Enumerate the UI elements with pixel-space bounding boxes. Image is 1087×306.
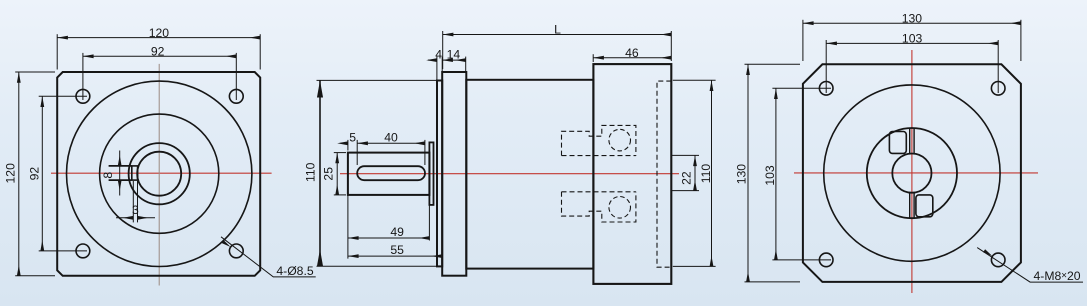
svg-text:L: L <box>554 23 561 37</box>
right view flange square 130x130 chamfered <box>803 64 1021 282</box>
svg-text:25: 25 <box>322 167 336 181</box>
right view body circle <box>824 85 1000 261</box>
dim 22: extension lines <box>672 155 699 190</box>
dim 92 left: extension lines <box>39 96 87 251</box>
right view bottom clamp pocket <box>916 195 933 217</box>
dim 110 left: dimension line <box>319 80 321 266</box>
middle view spigot collar <box>429 142 433 205</box>
dim 120 top: dimension line <box>57 37 260 39</box>
dim 5: extension line <box>347 140 349 151</box>
left view body circle Ø110 <box>67 81 252 266</box>
right view bottom clamp slit <box>910 193 914 218</box>
dim 5: arrow line <box>341 142 348 144</box>
dim 40: extension lines <box>357 140 425 165</box>
hidden hole circle lower <box>609 197 631 219</box>
svg-text:49: 49 <box>390 225 404 239</box>
svg-text:92: 92 <box>28 167 42 181</box>
dim 25: dimension line <box>336 153 338 195</box>
svg-text:46: 46 <box>625 46 639 60</box>
dim 55: dimension line <box>348 255 442 257</box>
middle view shaft <box>348 153 430 195</box>
hidden bore top line <box>562 155 636 157</box>
dim 8 key: dim line through <box>119 166 121 180</box>
right view top clamp slit <box>910 129 914 154</box>
dim 46: dimension line <box>593 57 671 59</box>
dim 103 top: extension lines <box>826 40 998 93</box>
right view bolt hole top-left <box>819 82 833 96</box>
dim 110 right: extension lines <box>673 80 716 266</box>
dim 4-14: extension lines <box>437 57 466 81</box>
dim 8 key: extension lines <box>109 166 132 180</box>
svg-text:55: 55 <box>390 243 404 257</box>
dim 103 left: dimension line <box>775 88 777 260</box>
svg-text:130: 130 <box>902 11 923 25</box>
left view bolt hole bottom-right <box>229 244 243 258</box>
dim 3 key: extension lines <box>133 181 137 222</box>
dim 130 top: extension lines <box>803 20 1021 61</box>
middle view boss Ø110 <box>437 81 442 267</box>
middle view flange plate <box>442 72 466 276</box>
left view bolt hole bottom-left <box>76 244 90 258</box>
hidden bore bottom line <box>562 191 636 193</box>
middle view body <box>466 80 593 269</box>
leader 4-Ø8.5 <box>221 237 316 277</box>
dim 14: dimension line <box>442 59 466 61</box>
dim 120 top: extension lines <box>57 34 260 69</box>
left view flange square outline 120x120 chamfered <box>57 72 260 276</box>
svg-text:40: 40 <box>384 131 398 145</box>
svg-text:8: 8 <box>101 172 115 179</box>
dim 120 left: dimension line <box>18 72 20 276</box>
left view bolt hole top-right <box>229 89 243 103</box>
left view horizontal centerline (red) <box>51 172 272 174</box>
leader 4-Ø8.5 arrowhead <box>221 240 230 247</box>
dim 92 top: extension lines <box>83 53 236 100</box>
dim 130 left: dimension line <box>747 64 749 282</box>
right view top clamp pocket <box>889 132 906 154</box>
hidden cavity lower outline <box>562 192 636 222</box>
dim L: extension lines <box>443 31 672 69</box>
svg-text:130: 130 <box>734 164 748 185</box>
left view shaft circle Ø25 <box>137 152 181 196</box>
dim 8 key: arrow lines <box>119 151 121 166</box>
dim 3 key: arrow lines <box>116 217 133 219</box>
dim 49: extension line <box>428 197 430 241</box>
dim 103 left: extension lines <box>772 88 831 260</box>
dim 40: dimension line <box>357 142 425 144</box>
hidden recess in rear block <box>657 81 671 267</box>
left view key section rectangle <box>132 166 138 180</box>
right view bolt hole bottom-left <box>819 253 833 267</box>
svg-text:92: 92 <box>151 45 165 59</box>
left view vertical centerline (muted) <box>158 64 160 286</box>
dim 92 left: dimension line <box>41 96 43 251</box>
dim 25: extension lines <box>334 153 346 195</box>
left view boss circle <box>100 114 219 233</box>
hidden cavity upper outline <box>562 125 636 155</box>
svg-text:14: 14 <box>447 48 461 62</box>
svg-text:4-Ø8.5: 4-Ø8.5 <box>276 264 313 278</box>
dim 120 left: extension lines <box>15 72 55 276</box>
svg-text:22: 22 <box>680 171 694 185</box>
svg-text:3: 3 <box>132 203 139 217</box>
left view spigot circle <box>129 143 190 204</box>
right view vertical centerline (red) <box>911 50 913 293</box>
dim 110 right: dimension line <box>711 80 713 266</box>
leader 4-M8x20 <box>977 248 1083 283</box>
middle view rear block <box>593 64 671 284</box>
dim 130 top: dimension line <box>803 22 1021 24</box>
dim 49: dimension line <box>348 237 430 239</box>
svg-text:110: 110 <box>303 162 317 182</box>
right view horizontal centerline (red) <box>794 172 1038 174</box>
svg-text:5: 5 <box>349 131 356 145</box>
right view hub circle <box>867 128 957 218</box>
right view bolt hole top-right <box>991 82 1005 96</box>
right view bore circle Ø22 <box>892 154 931 193</box>
dim 22: dimension line <box>694 155 696 190</box>
svg-text:110: 110 <box>699 164 713 184</box>
svg-text:4-M8×20: 4-M8×20 <box>1034 269 1081 283</box>
dim 4: arrow line <box>428 59 437 61</box>
svg-text:103: 103 <box>902 32 923 46</box>
svg-text:103: 103 <box>763 165 777 186</box>
svg-text:120: 120 <box>149 26 170 40</box>
dim 110 left: extension lines <box>317 80 438 266</box>
dim L: dimension line <box>443 34 672 36</box>
middle view horizontal centerline (red) <box>340 173 679 175</box>
middle view key slot <box>357 166 425 180</box>
dim 92 top: dimension line <box>83 55 236 57</box>
dim 46: extension line <box>592 54 594 62</box>
svg-text:4: 4 <box>435 48 442 62</box>
hidden hole circle upper <box>609 129 631 151</box>
left view bolt hole top-left <box>76 89 90 103</box>
dim 130 left: extension lines <box>745 64 801 282</box>
right view bolt hole bottom-right <box>991 253 1005 267</box>
dim 55: extension line <box>347 195 349 259</box>
dim 103 top: dimension line <box>826 42 998 44</box>
svg-text:120: 120 <box>4 163 18 184</box>
leader 4-M8x20 arrowhead <box>983 249 992 256</box>
